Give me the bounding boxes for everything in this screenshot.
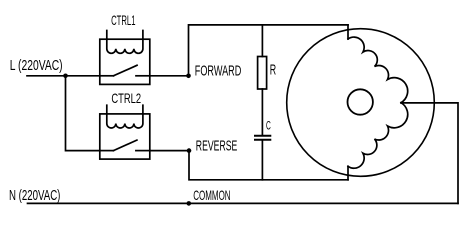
svg-text:CTRL1: CTRL1 [111,12,136,28]
motor rotor small circle [348,89,373,114]
wire capacitor down to reverse rail [261,141,263,180]
node FORWARD junction dot [186,74,191,79]
wire from L junction down to CTRL2 [66,76,100,151]
node N: wire N (220VAC) / COMMON rail [28,202,459,204]
svg-text:REVERSE: REVERSE [196,137,238,154]
svg-text:FORWARD: FORWARD [195,63,242,80]
switch contact CTRL2 (wire through box) [100,150,114,152]
switch contact CTRL1 (wire through box) [100,75,114,77]
wire CTRL1 to FORWARD node [150,75,189,77]
node L: wire L (220VAC) rail [27,75,100,77]
svg-text:L (220VAC): L (220VAC) [10,57,63,74]
svg-text:C: C [266,119,271,133]
wire motor top lead [347,25,349,39]
wire motor aux winding down lead [347,166,349,180]
svg-text:CTRL2: CTRL2 [111,90,141,106]
motor body circle [287,29,435,177]
wire FORWARD node up and right to motor top [189,25,349,76]
svg-text:R: R [270,61,276,78]
relay CTRL2 box [100,114,150,159]
node REVERSE junction dot [187,148,192,153]
svg-text:COMMON: COMMON [193,187,230,203]
wire resistor to capacitor [261,89,263,135]
capacitor C plates [255,135,270,137]
resistor R [258,57,267,90]
relay CTRL1 box [100,39,150,84]
wire resistor branch from top rail [261,25,263,57]
wire CTRL2 to REVERSE node [150,150,189,152]
wire motor right lead to common [401,103,458,203]
motor main winding (upper) [348,37,408,103]
wire REVERSE node down and right to motor aux winding [189,151,348,180]
coil of CTRL1 [107,31,143,54]
motor aux winding (lower) [348,103,408,169]
svg-text:N (220VAC): N (220VAC) [9,187,60,204]
coil of CTRL2 [107,105,143,128]
junction dot on COMMON rail [187,201,192,206]
junction dot on L rail [63,74,68,79]
switch blade CTRL2 [113,140,136,151]
switch blade CTRL1 [114,65,138,76]
